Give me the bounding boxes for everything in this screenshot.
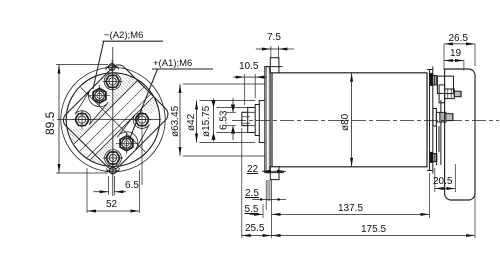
- flange outer circle: [66, 73, 160, 167]
- svg-text:7.5: 7.5: [267, 32, 281, 43]
- boot hidden edge: [440, 100, 442, 165]
- dim 10.5 line: [233, 76, 245, 78]
- shaft thread hole lines: [242, 116, 250, 118]
- dim 20.5 ext lines: [434, 168, 436, 192]
- dim 6.5 line: [93, 191, 108, 193]
- dim 22 line: [262, 170, 286, 172]
- mounting hole bottom: [103, 148, 123, 168]
- dim ø80 line: [351, 73, 353, 167]
- dim 20.5 line: [435, 188, 456, 190]
- svg-text:22: 22: [247, 164, 259, 175]
- hatched insulation band: [60, 66, 170, 176]
- mounting hole top: [103, 72, 123, 92]
- label A1 leader: [130, 69, 158, 138]
- svg-text:−(A2);M6: −(A2);M6: [104, 30, 143, 41]
- terminal block top: [437, 76, 453, 93]
- svg-text:52: 52: [106, 199, 118, 210]
- bottom clamp bolt: [430, 152, 433, 162]
- svg-text:2.5: 2.5: [245, 188, 259, 199]
- bottom tab small circle: [110, 167, 117, 174]
- dim 7.5 ext lines: [270, 46, 272, 58]
- insulation band edge upper: [74, 81, 137, 144]
- horizontal centerline: [57, 119, 161, 121]
- dim 137.5 ext line: [429, 173, 431, 218]
- dim 10.5 ext lines: [244, 74, 246, 105]
- stud2 thread: [446, 114, 453, 121]
- main centerline: [232, 119, 499, 121]
- ext verticals flange bottom: [265, 180, 267, 210]
- dim 89.5 line: [58, 65, 60, 174]
- motor body: [272, 73, 427, 167]
- dim 52 ext lines: [86, 168, 88, 213]
- brush slot line 2: [87, 94, 151, 158]
- top tab small circle: [109, 64, 116, 71]
- svg-text:ø80: ø80: [340, 113, 351, 131]
- svg-text:19: 19: [450, 48, 462, 59]
- dim 137.5 line: [272, 213, 430, 215]
- stud1 thread: [454, 91, 461, 97]
- svg-text:175.5: 175.5: [361, 224, 386, 235]
- flange rim outer circle: [61, 67, 165, 171]
- flange bottom edge: [265, 172, 284, 174]
- hole top boss ring: [104, 73, 121, 90]
- dim ø42 line: [196, 101, 198, 143]
- dim 19 ext line: [463, 61, 465, 71]
- stud1 washer plate: [439, 85, 445, 103]
- mounting hole left: [72, 110, 92, 130]
- dim 52 line: [87, 210, 140, 212]
- dim 7.5 line: [256, 48, 271, 50]
- insulation band edge lower: [90, 97, 153, 160]
- brush slot line 1: [80, 86, 145, 151]
- boot: [445, 69, 475, 200]
- dim ø63.45 line: [179, 84, 181, 156]
- dim ø15.75 line: [213, 108, 215, 133]
- flange rounded-square outline: [63, 65, 167, 169]
- flange top tab: [270, 58, 279, 73]
- svg-text:137.5: 137.5: [338, 203, 363, 214]
- dim ø63.45 ext lines: [183, 83, 265, 85]
- dim ø42 ext lines: [200, 100, 256, 102]
- label A2 underline: [103, 40, 164, 42]
- svg-text:ø42: ø42: [186, 113, 197, 131]
- hole bottom boss ring: [105, 150, 122, 167]
- bottom tab cap: [106, 168, 119, 173]
- hub ø42: [259, 101, 265, 143]
- stud2 nut: [436, 112, 446, 122]
- dim 19 line: [444, 60, 464, 62]
- terminal stud A1: [116, 133, 137, 154]
- flange top edge: [265, 66, 283, 68]
- svg-text:20.5: 20.5: [433, 176, 453, 187]
- flange bottom tab: [270, 167, 279, 180]
- label A2 leader: [93, 41, 104, 89]
- svg-text:89.5: 89.5: [43, 111, 57, 135]
- svg-text:10.5: 10.5: [239, 61, 259, 72]
- svg-text:ø15.75: ø15.75: [201, 105, 212, 137]
- dim 175.5 line: [272, 235, 476, 237]
- dim 6.5 ext lines: [108, 176, 110, 195]
- shaft mid step: [255, 105, 259, 136]
- svg-text:6.5: 6.5: [125, 180, 139, 191]
- svg-text:+(A1);M6: +(A1);M6: [153, 58, 192, 69]
- stud1 nut: [445, 89, 455, 99]
- boss obround stud A2 to left hole: [75, 89, 109, 125]
- dim 6.53 line w outside arrows: [232, 98, 234, 112]
- dim 89.5 ext bottom: [56, 172, 108, 174]
- end plate: [429, 70, 431, 171]
- terminal stud A2: [89, 85, 110, 106]
- top tab cap: [106, 65, 119, 70]
- flange plate: [265, 67, 272, 173]
- brush axis diagonal: [81, 87, 146, 152]
- svg-text:25.5: 25.5: [245, 223, 265, 234]
- dim 26.5 line: [444, 43, 475, 45]
- stud2 washer plate: [433, 109, 436, 127]
- label A1 underline: [152, 68, 213, 70]
- dim 89.5 ext top: [56, 64, 108, 66]
- mounting hole right: [132, 110, 152, 185]
- boss obround stud A1 to right hole: [117, 115, 149, 150]
- svg-text:ø63.45: ø63.45: [170, 105, 181, 137]
- svg-text:5.5: 5.5: [245, 204, 259, 215]
- dim ø15.75 ext lines: [217, 107, 248, 109]
- dim 25.5 / 175.5 ext lines: [241, 128, 243, 238]
- top clamp bolt: [430, 73, 433, 85]
- vertical centerline: [112, 47, 114, 196]
- dim 6.53 ticks: [226, 111, 236, 113]
- dim 26.5 ext lines: [443, 44, 445, 70]
- shaft tip 6.53: [242, 112, 248, 125]
- dim 2.5 line: [252, 198, 286, 200]
- lower small steps: [436, 126, 438, 165]
- shaft ø15.75: [248, 108, 256, 133]
- svg-text:26.5: 26.5: [449, 33, 469, 44]
- dim 5.5 line: [250, 213, 263, 215]
- dim 25.5 line: [242, 235, 272, 237]
- svg-text:6.53: 6.53: [219, 110, 230, 130]
